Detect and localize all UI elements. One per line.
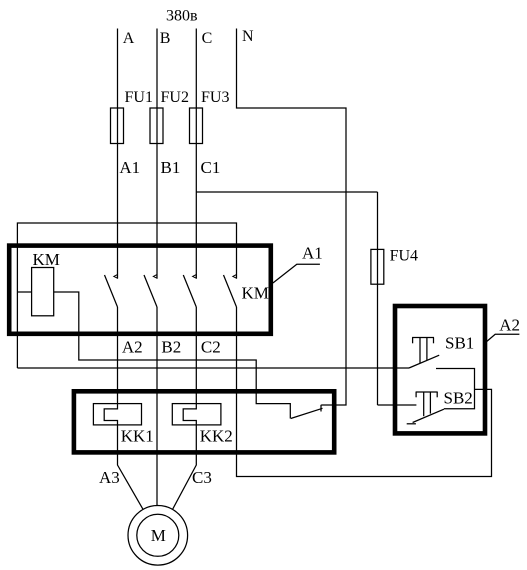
svg-text:A3: A3 xyxy=(99,468,120,487)
svg-text:N: N xyxy=(242,28,254,45)
svg-text:KK2: KK2 xyxy=(200,427,233,446)
svg-text:FU2: FU2 xyxy=(161,89,189,106)
svg-text:A1: A1 xyxy=(302,244,323,263)
svg-text:A2: A2 xyxy=(122,338,143,357)
svg-text:C1: C1 xyxy=(201,158,221,177)
svg-text:C2: C2 xyxy=(201,338,221,357)
svg-text:A: A xyxy=(123,30,135,47)
svg-text:380в: 380в xyxy=(166,8,198,25)
svg-text:SB1: SB1 xyxy=(445,334,474,353)
svg-text:C: C xyxy=(202,30,213,47)
svg-text:KM: KM xyxy=(33,250,60,269)
svg-text:SB2: SB2 xyxy=(444,388,473,407)
svg-text:KK1: KK1 xyxy=(121,427,154,446)
svg-text:C3: C3 xyxy=(192,468,212,487)
svg-text:M: M xyxy=(151,526,166,545)
svg-text:A2: A2 xyxy=(499,316,520,335)
svg-text:B: B xyxy=(160,30,171,47)
svg-text:B2: B2 xyxy=(161,338,181,357)
svg-text:FU4: FU4 xyxy=(390,248,418,265)
svg-text:B1: B1 xyxy=(161,158,181,177)
svg-text:KM: KM xyxy=(242,284,269,303)
svg-text:A1: A1 xyxy=(119,158,140,177)
svg-text:FU1: FU1 xyxy=(125,89,153,106)
svg-text:FU3: FU3 xyxy=(201,89,229,106)
